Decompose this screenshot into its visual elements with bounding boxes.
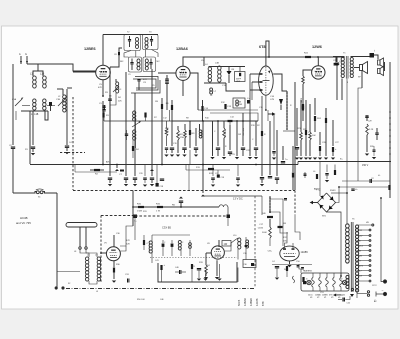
- ferrite rod antenna: [66, 223, 97, 228]
- ground 237: [235, 157, 239, 159]
- label R3: [105, 92, 112, 98]
- resistor on bus: [304, 53, 311, 59]
- svg-text:6T8: 6T8: [329, 295, 332, 297]
- stray text c: [96, 291, 98, 293]
- oscillator coil L2: [63, 89, 66, 112]
- ground 224: [222, 157, 226, 159]
- row caps 203: [211, 165, 215, 187]
- label C22: [246, 150, 251, 152]
- ac plug: [382, 280, 387, 296]
- zig 310: [309, 132, 317, 156]
- label C51: [320, 292, 325, 294]
- antenna coil L1A: [30, 73, 36, 89]
- heater labels vertical: [237, 298, 265, 306]
- right blob 335: [334, 165, 336, 176]
- wire V4 down a: [314, 79, 316, 99]
- variable cap C1A arrow: [15, 97, 23, 106]
- cap 327 mid: [325, 165, 329, 183]
- output transformer secondary: [350, 57, 353, 77]
- IF can T2 box: [124, 35, 140, 51]
- resistor on bus 122: [119, 170, 124, 177]
- variable cap C1B arrow: [58, 97, 66, 106]
- mini labels cluster: [214, 131, 254, 148]
- loop coil B: [95, 255, 101, 282]
- svg-text:I1: I1: [306, 279, 308, 281]
- ac rail: [380, 197, 383, 281]
- svg-text:(-): (-): [214, 91, 216, 93]
- svg-text:C3X B5: C3X B5: [162, 226, 171, 230]
- label 47K 22K: [126, 240, 130, 246]
- svg-text:12AB5: 12AB5: [301, 251, 309, 254]
- 6T8 inner arrow: [268, 71, 271, 74]
- right cap 377: [375, 128, 378, 140]
- ground V5: [112, 281, 116, 283]
- svg-text:50C5: 50C5: [308, 295, 313, 297]
- svg-text:10K: 10K: [312, 135, 316, 137]
- label R13: [196, 167, 201, 169]
- svg-text:1W: 1W: [238, 134, 241, 136]
- stray text a: [137, 299, 144, 301]
- tube inner marks 12BE6: [100, 71, 107, 72]
- svg-text:L9: L9: [96, 291, 98, 293]
- wire V6 cath: [216, 260, 218, 276]
- column 237: [236, 121, 238, 156]
- det coil L4A: [205, 64, 212, 82]
- label R7: [154, 117, 158, 119]
- AVC bus: [30, 164, 298, 166]
- label R40: [262, 213, 267, 215]
- label R19: [251, 125, 256, 127]
- svg-text:R50 C44: R50 C44: [137, 299, 144, 301]
- label AVC: [106, 161, 111, 164]
- T5 bottom wires: [342, 78, 351, 101]
- avc sub wire right: [186, 165, 230, 191]
- wire 12BA6 out: [190, 73, 198, 110]
- osc trimmer blob: [49, 102, 52, 111]
- loop coil A: [85, 255, 90, 282]
- bridge top lead: [327, 192, 348, 194]
- dashed chassis stub: [60, 152, 85, 154]
- bus cap up: [179, 197, 183, 208]
- jack 1: [378, 58, 384, 67]
- label C14b: [230, 117, 235, 119]
- label R42: [207, 265, 210, 267]
- bus 121 left: [104, 120, 172, 122]
- cap 280: [278, 223, 287, 228]
- coil L1B lower: [43, 99, 46, 110]
- label 12AB5: [301, 251, 309, 254]
- svg-text:35W4: 35W4: [330, 190, 336, 192]
- dashed shield top2: [135, 215, 230, 217]
- svg-text:VER: VER: [236, 81, 241, 83]
- label R6b: [172, 205, 176, 207]
- right caps 241: [238, 249, 256, 282]
- IF can T3b box: [143, 57, 156, 72]
- label C27: [335, 142, 340, 144]
- svg-text:CB+: CB+: [268, 251, 273, 253]
- svg-text:C1B: C1B: [56, 99, 61, 101]
- wire x16: [15, 111, 17, 120]
- output cluster blob b: [325, 108, 327, 123]
- bus corner route: [131, 77, 160, 94]
- ground 172: [170, 155, 174, 157]
- wire V4 top: [317, 57, 319, 66]
- label C36: [243, 264, 248, 266]
- fm coil 152: [149, 235, 152, 263]
- box arrow 205: [203, 270, 207, 281]
- svg-text:C52: C52: [347, 303, 350, 305]
- wire V5 top: [113, 235, 115, 247]
- label C35: [243, 253, 248, 255]
- svg-text:22K: 22K: [126, 244, 130, 246]
- svg-text:47K: 47K: [98, 87, 102, 89]
- electrolytic 157: [156, 165, 165, 189]
- ground V6 cath: [215, 277, 219, 279]
- label I2: [341, 279, 343, 281]
- jack 2: [378, 67, 384, 76]
- right rail blob: [388, 185, 390, 190]
- label C41: [155, 260, 160, 262]
- switch dots: [55, 287, 68, 289]
- blob 303: [302, 104, 304, 109]
- oscillator coil wire: [66, 89, 68, 145]
- capacitor C6: [103, 101, 104, 164]
- wire left rail: [12, 64, 14, 145]
- cap 104: [99, 103, 106, 121]
- vol label: [290, 105, 292, 107]
- ac wires: [357, 288, 383, 302]
- T6 top tap: [356, 222, 374, 226]
- up arrow 203: [201, 193, 205, 197]
- bus hop: [219, 205, 228, 207]
- wire antenna to bus: [27, 64, 96, 71]
- resistor 190: [189, 130, 195, 135]
- bus 121: [172, 120, 258, 122]
- bridge right lead: [336, 187, 340, 203]
- label C40: [175, 267, 180, 269]
- tube V3 6T8 oval: [259, 66, 274, 95]
- label 12BA6: [176, 47, 188, 51]
- wire 6T8 right: [273, 74, 287, 91]
- svg-text:V1: V1: [324, 297, 326, 299]
- right lower line: [342, 180, 390, 182]
- label 117V: [372, 285, 377, 287]
- wire 295b: [295, 215, 300, 240]
- electrolytic +: [333, 288, 354, 304]
- column 172: [170, 121, 174, 153]
- bottom rail: [12, 164, 14, 193]
- fm caps row: [162, 240, 192, 256]
- box cap mid: [175, 270, 186, 274]
- svg-text:35: 35: [343, 295, 345, 297]
- capacitor trimmer A: [31, 147, 35, 152]
- column 250: [249, 113, 251, 156]
- label 2nd IF: [149, 32, 152, 34]
- ground 184: [182, 155, 186, 157]
- cap 277b: [275, 265, 279, 280]
- cap 374 mid: [372, 146, 376, 159]
- svg-text:50C5: 50C5: [237, 299, 241, 306]
- cap 336: [334, 57, 344, 71]
- dash-dot bottom: [66, 288, 255, 290]
- T6 primary2: [0, 0, 1, 1]
- wire gang down B: [32, 111, 34, 145]
- osc res 145: [144, 113, 146, 122]
- svg-text:117: 117: [359, 271, 362, 273]
- col 274 upper: [272, 114, 276, 160]
- label 6T8: [259, 45, 266, 49]
- dashed shield left: [100, 216, 102, 283]
- filament feed: [296, 261, 301, 273]
- ground padder: [65, 152, 69, 154]
- label 500K: [262, 232, 267, 234]
- V5 bottom resistor: [113, 261, 115, 279]
- label R45: [284, 269, 289, 271]
- column 230: [228, 125, 232, 156]
- label I1: [306, 279, 308, 281]
- svg-text:6T8: 6T8: [261, 301, 265, 306]
- tube V6: [211, 246, 224, 259]
- det horizontals: [210, 110, 258, 113]
- label R20: [257, 125, 260, 127]
- coil 199: [199, 124, 202, 138]
- wire V6 grid: [206, 252, 212, 254]
- IF can T3 box: [129, 57, 142, 72]
- col 190 ext: [189, 150, 191, 165]
- wire 12BE6 cathode down: [102, 80, 104, 96]
- bus junctions: [132, 206, 182, 208]
- ground col135: [133, 184, 137, 186]
- cap 287b: [286, 266, 288, 277]
- antenna coil L1B: [40, 73, 46, 89]
- ground col152: [150, 184, 154, 186]
- label 12BE6: [84, 47, 96, 51]
- extra h 110b: [198, 109, 210, 111]
- fm top wires: [152, 235, 190, 240]
- label C15: [259, 107, 264, 109]
- long vert 262: [261, 186, 263, 196]
- junction dots bus: [102, 164, 257, 166]
- label R10: [205, 118, 210, 120]
- label 47K: [143, 79, 147, 84]
- svg-text:HEATERS: HEATERS: [303, 270, 313, 273]
- label R23: [303, 129, 306, 131]
- dark cap 320: [319, 132, 321, 156]
- ground V6 grid: [204, 277, 208, 279]
- capacitor 184: [182, 148, 186, 153]
- label C1A: [12, 98, 17, 101]
- wire T5 down: [346, 79, 348, 162]
- resistor R6 dark: [166, 100, 173, 121]
- label C30: [116, 233, 121, 235]
- output cluster blob a: [305, 130, 310, 135]
- wire 283 down: [282, 203, 284, 246]
- gang frame right: [47, 105, 55, 107]
- svg-text:38: 38: [359, 241, 361, 243]
- wire V5 plate right: [120, 246, 126, 251]
- column 218: [216, 121, 220, 156]
- cap 297: [295, 148, 299, 157]
- label osc: [119, 89, 122, 91]
- feedthrough cap 1: [134, 215, 138, 223]
- bottom bus: [133, 207, 228, 226]
- fm res 144: [143, 235, 149, 250]
- stem dots: [76, 247, 87, 249]
- IF T3b coil: [145, 59, 148, 70]
- ground col110: [108, 184, 112, 186]
- h wire 131: [283, 130, 295, 132]
- label R4: [118, 97, 122, 103]
- V6 grid resistor: [205, 253, 208, 276]
- output transformer core: [346, 56, 348, 79]
- filament bus box: [301, 273, 349, 291]
- det hook: [200, 57, 204, 66]
- T5 top wires: [333, 57, 371, 58]
- label C1B: [56, 99, 61, 101]
- capacitor C11: [160, 164, 164, 180]
- antenna terminals: [19, 53, 28, 64]
- svg-text:CR: CR: [231, 69, 235, 71]
- right mid components: [365, 115, 374, 156]
- col 169 wire: [169, 110, 171, 121]
- wire 6T8 top: [266, 41, 269, 66]
- dashed shield right: [254, 196, 256, 288]
- shielded wire: [286, 91, 288, 130]
- misc wire2: [346, 162, 349, 225]
- IF T2 coil: [135, 37, 138, 48]
- signal arrow right: [268, 112, 275, 116]
- svg-text:8BT3: 8BT3: [359, 266, 364, 268]
- cap right of V4: [335, 57, 344, 100]
- ps top wire: [339, 186, 390, 188]
- screen resistor: [302, 76, 305, 100]
- svg-text:Vc: Vc: [378, 175, 380, 177]
- svg-text:C1A: C1A: [12, 98, 17, 101]
- cap V5 right: [125, 274, 130, 283]
- capacitor col152: [150, 178, 154, 183]
- wire 12BA6 plate: [183, 57, 345, 66]
- svg-text:50C5: 50C5: [359, 246, 364, 248]
- label C26: [322, 142, 327, 144]
- junction: [102, 95, 104, 97]
- svg-text:47K: 47K: [143, 79, 147, 81]
- tube inner marks 50C5: [315, 71, 322, 72]
- box 233: [233, 98, 245, 108]
- caps 245: [245, 237, 249, 260]
- wire IF link 3: [144, 50, 146, 58]
- wire col 126: [125, 72, 127, 176]
- wire gang down A: [29, 111, 31, 164]
- ps junction: [338, 186, 340, 188]
- speaker wires: [354, 63, 362, 181]
- label R1: [25, 149, 29, 151]
- label 47K 15K: [283, 237, 287, 243]
- box cap 199: [197, 269, 201, 281]
- label CB: [268, 251, 273, 253]
- output transformer T5 primary: [341, 57, 344, 78]
- svg-text:A8: A8: [359, 250, 361, 253]
- svg-text:L4B: L4B: [215, 63, 219, 65]
- IF T2b capacitor: [150, 36, 153, 46]
- column 224: [223, 121, 226, 156]
- pilot lamp 2: [342, 280, 346, 284]
- switch sym: [0, 0, 1, 1]
- ground col126: [124, 184, 128, 186]
- IF T3 coil: [137, 59, 140, 70]
- col 262 upper: [261, 96, 266, 165]
- svg-text:HC4B: HC4B: [20, 216, 28, 220]
- avc sub wire left: [75, 165, 117, 173]
- col 166 res: [164, 121, 168, 157]
- label 270: [258, 224, 264, 230]
- svg-text:L1 L1B: L1 L1B: [31, 114, 39, 116]
- box arrow 219: [217, 264, 221, 281]
- electrolytic 218: [217, 170, 224, 179]
- shield wire 270: [269, 196, 271, 213]
- cap 277: [275, 130, 279, 184]
- diode box 1N295: [235, 72, 246, 84]
- wire V4 left: [303, 70, 312, 76]
- dashed chassis bottom: [73, 190, 295, 192]
- tube V1 12BE6: [96, 65, 111, 80]
- IF T3b capacitor: [149, 59, 152, 70]
- fm dotted: [150, 257, 237, 259]
- label 35: [347, 82, 349, 84]
- label R8: [186, 118, 189, 120]
- svg-text:C18: C18: [221, 177, 224, 179]
- osc join: [135, 121, 137, 148]
- box cap plus: [160, 264, 165, 282]
- branch 280: [269, 211, 288, 233]
- dashed shield top: [101, 215, 135, 217]
- B+ line right: [298, 161, 391, 163]
- bridge rectifier: [318, 193, 336, 212]
- det wires top: [209, 67, 246, 72]
- osc cap 126: [125, 130, 128, 140]
- filament cap: [303, 281, 306, 284]
- svg-text:V6: V6: [338, 297, 340, 299]
- svg-text:V4: V4: [310, 297, 312, 299]
- col 230 ext: [229, 121, 231, 125]
- pwr label: [330, 190, 336, 192]
- T6 core: [351, 222, 353, 292]
- svg-text:and VC 735: and VC 735: [16, 221, 31, 225]
- up arrow 117: [115, 165, 119, 172]
- wire coil tops: [33, 64, 43, 76]
- ferrite stems: [80, 227, 86, 247]
- label NC: [157, 61, 161, 63]
- bottom bus right: [272, 264, 312, 266]
- capacitor osc grid: [108, 95, 112, 110]
- svg-text:NC: NC: [157, 61, 161, 63]
- capacitor C1 left: [11, 147, 15, 164]
- tube V5: [106, 247, 120, 261]
- svg-text:C1B5: C1B5: [258, 228, 264, 230]
- zig 270: [269, 219, 272, 246]
- grid stub: [110, 48, 122, 67]
- column 212: [212, 121, 214, 156]
- top bus: [103, 34, 158, 36]
- wire col 110: [109, 67, 111, 176]
- extra h 113: [250, 113, 258, 121]
- bottom join: [57, 270, 86, 273]
- osc coil arrow: [113, 86, 119, 92]
- label 12W6: [312, 45, 322, 49]
- label MC: [120, 61, 124, 63]
- row caps 238: [236, 165, 240, 187]
- label C28: [333, 60, 338, 62]
- capacitor C8: [137, 80, 140, 91]
